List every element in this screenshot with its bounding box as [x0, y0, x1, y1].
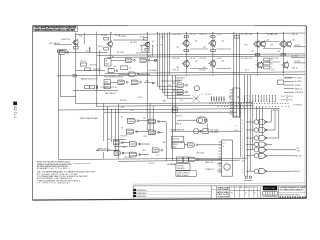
svg-text:R16: R16 — [241, 58, 244, 60]
svg-text:B+ 340V: B+ 340V — [295, 78, 303, 80]
svg-text:R10 2.2K: R10 2.2K — [173, 34, 181, 36]
svg-text:R21 10K: R21 10K — [245, 34, 253, 36]
svg-text:C4 .02: C4 .02 — [216, 34, 221, 36]
svg-text:R17: R17 — [114, 66, 117, 68]
svg-text:R10 2.2K: R10 2.2K — [199, 34, 207, 36]
svg-text:FUNCTION SELECTOR SW: FUNCTION SELECTOR SW — [104, 77, 123, 79]
svg-text:R25 10: R25 10 — [292, 34, 298, 36]
svg-text:C32: C32 — [168, 85, 171, 87]
svg-text:C47: C47 — [235, 130, 238, 132]
svg-text:R18: R18 — [176, 67, 179, 69]
svg-text:R11 470: R11 470 — [173, 58, 180, 60]
svg-text:R77: R77 — [235, 116, 238, 118]
svg-text:C24: C24 — [277, 51, 280, 53]
svg-text:C9 .1: C9 .1 — [271, 70, 275, 72]
svg-text:REVISED PER ECN: REVISED PER ECN — [137, 196, 147, 198]
svg-text:V6: V6 — [121, 128, 123, 130]
svg-text:R4 470K: R4 470K — [130, 42, 138, 44]
svg-text:Q3: Q3 — [195, 41, 197, 43]
svg-text:Q8: Q8 — [292, 40, 294, 42]
svg-text:C35: C35 — [121, 107, 124, 109]
svg-text:R51: R51 — [173, 83, 176, 85]
svg-text:R58 1K: R58 1K — [176, 124, 183, 126]
svg-text:R20: R20 — [245, 45, 248, 47]
svg-text:PREAMP: PREAMP — [176, 79, 184, 82]
svg-text:C10: C10 — [176, 47, 179, 49]
svg-text:T2 OUT: T2 OUT — [205, 94, 211, 96]
svg-text:PIN 5: PIN 5 — [289, 100, 293, 102]
svg-text:C7: C7 — [129, 67, 131, 69]
svg-text:OSC 455: OSC 455 — [172, 139, 179, 141]
svg-text:B+ 350: B+ 350 — [292, 56, 298, 58]
svg-text:OUT: OUT — [297, 151, 301, 153]
svg-text:R6: R6 — [112, 57, 114, 59]
svg-text:SC 5: SC 5 — [250, 187, 254, 189]
svg-text:V3A 12AX7: V3A 12AX7 — [176, 76, 185, 79]
svg-text:SCALE NONE: SCALE NONE — [217, 195, 230, 198]
svg-text:AF OUT: AF OUT — [295, 155, 302, 158]
svg-text:GND BUS: GND BUS — [295, 92, 304, 94]
svg-text:C30 20MF: C30 20MF — [149, 70, 157, 72]
svg-text:11: 11 — [245, 193, 247, 195]
svg-text:C2 100PF: C2 100PF — [118, 36, 127, 38]
svg-text:SCHEMATIC NO 771-53 REV C: SCHEMATIC NO 771-53 REV C — [37, 167, 71, 170]
svg-text:R82 220K: R82 220K — [197, 153, 205, 155]
svg-text:C31: C31 — [143, 118, 146, 120]
svg-text:REVISED PER ECN: REVISED PER ECN — [137, 190, 147, 192]
svg-text:TO SPKR A: TO SPKR A — [293, 103, 303, 106]
svg-text:TWO CHANNEL STEREO CHASSIS 7T1: TWO CHANNEL STEREO CHASSIS 7T10 — [279, 189, 303, 192]
svg-text:AC LINE IN: AC LINE IN — [50, 42, 60, 45]
svg-text:R64: R64 — [143, 150, 146, 152]
svg-text:C50: C50 — [242, 161, 245, 163]
svg-text:R21 10K: R21 10K — [271, 34, 279, 36]
svg-text:OUT A: OUT A — [294, 44, 300, 47]
svg-text:T2: T2 — [201, 94, 203, 96]
svg-text:Q6: Q6 — [222, 61, 224, 63]
svg-text:T3: T3 — [222, 143, 224, 145]
svg-text:OF SERVICE MANUAL: OF SERVICE MANUAL — [37, 181, 71, 184]
svg-text:SERIES 700 STEREO NO 7T10 AND: SERIES 700 STEREO NO 7T10 AND ALL LATER … — [34, 29, 75, 32]
svg-text:6BE6: 6BE6 — [172, 147, 176, 149]
svg-text:R1 47K: R1 47K — [101, 35, 108, 37]
svg-text:R11 470: R11 470 — [199, 58, 206, 60]
svg-text:500K AUD: 500K AUD — [177, 167, 186, 170]
svg-text:IF: IF — [222, 146, 223, 148]
svg-text:R55 330: R55 330 — [120, 100, 126, 102]
svg-text:TO V7: TO V7 — [281, 96, 286, 98]
svg-text:C41 250PF: C41 250PF — [210, 132, 219, 134]
svg-text:C3 .01: C3 .01 — [98, 46, 103, 48]
svg-text:→ INPUT A: → INPUT A — [60, 38, 71, 41]
svg-text:CK 2: CK 2 — [235, 187, 239, 189]
svg-text:BAL ADJ R40 5K POT: BAL ADJ R40 5K POT — [81, 77, 99, 80]
svg-text:R57: R57 — [131, 110, 134, 112]
svg-text:B+ 285V: B+ 285V — [295, 81, 303, 83]
svg-text:C38: C38 — [144, 136, 147, 138]
svg-text:SPKR B: SPKR B — [293, 171, 300, 173]
svg-text:L1: L1 — [177, 160, 179, 162]
svg-text:PIN 4: PIN 4 — [289, 96, 293, 98]
svg-text:R22 4.7K: R22 4.7K — [245, 58, 253, 60]
svg-text:771-53: 771-53 — [14, 106, 18, 118]
svg-text:R56: R56 — [163, 101, 166, 103]
svg-text:R26 10: R26 10 — [292, 68, 298, 70]
svg-text:C6 .02: C6 .02 — [136, 53, 141, 55]
svg-text:R12 1K: R12 1K — [199, 70, 206, 72]
svg-text:R15: R15 — [241, 34, 244, 36]
svg-text:6.3VAC: 6.3VAC — [295, 84, 302, 87]
svg-text:C20 40MF: C20 40MF — [284, 78, 292, 80]
svg-text:LINE VOLTAGE 117 VAC: LINE VOLTAGE 117 VAC — [80, 117, 99, 120]
svg-text:R66: R66 — [163, 142, 166, 144]
svg-text:Q2: Q2 — [152, 41, 154, 43]
svg-text:V9: V9 — [157, 155, 159, 157]
svg-text:R31 22K: R31 22K — [90, 64, 98, 66]
svg-text:Q4: Q4 — [222, 41, 224, 43]
svg-text:R2 1M: R2 1M — [86, 51, 92, 53]
svg-text:DWG 771-53 SH 1 OF 1 REV C: DWG 771-53 SH 1 OF 1 REV C — [279, 194, 301, 196]
svg-text:V5: V5 — [121, 117, 123, 119]
svg-text:REVISED PER ECN: REVISED PER ECN — [137, 193, 147, 195]
svg-text:R62: R62 — [108, 149, 111, 151]
svg-text:BASS TREBLE: BASS TREBLE — [177, 174, 189, 177]
svg-text:R32 10K: R32 10K — [94, 69, 102, 71]
svg-text:METTLER: METTLER — [264, 188, 275, 190]
svg-text:R12 1K: R12 1K — [173, 70, 180, 72]
svg-text:C23: C23 — [251, 51, 254, 53]
svg-text:C8 .05: C8 .05 — [267, 34, 272, 36]
svg-text:C33 .1: C33 .1 — [138, 97, 143, 99]
svg-text:C36 .02: C36 .02 — [176, 116, 182, 118]
svg-text:R61: R61 — [108, 139, 111, 141]
svg-text:R5 220K: R5 220K — [117, 52, 125, 54]
svg-text:SEE CHART 2: SEE CHART 2 — [105, 92, 116, 95]
svg-text:Q8: Q8 — [267, 40, 269, 42]
svg-text:V1: V1 — [105, 61, 107, 63]
svg-text:C45 .05: C45 .05 — [149, 163, 155, 165]
svg-text:PHONO INPUT B: PHONO INPUT B — [171, 129, 185, 131]
svg-text:R52: R52 — [173, 90, 176, 92]
svg-text:TUNER IN →: TUNER IN → — [205, 169, 216, 171]
svg-text:BIAS -45: BIAS -45 — [295, 87, 302, 90]
svg-text:C4 .02: C4 .02 — [190, 34, 195, 36]
svg-text:C11: C11 — [203, 47, 206, 49]
svg-text:C9 .1: C9 .1 — [245, 70, 249, 72]
svg-text:VOL R80: VOL R80 — [177, 165, 184, 167]
svg-text:DR 1: DR 1 — [230, 187, 234, 189]
svg-text:C14 .25: C14 .25 — [80, 61, 86, 63]
svg-text:TO V8: TO V8 — [281, 100, 286, 102]
svg-text:TAPE OUT →: TAPE OUT → — [205, 161, 216, 164]
svg-text:OUT B: OUT B — [294, 61, 300, 63]
svg-text:Q5: Q5 — [195, 61, 197, 63]
svg-text:R50: R50 — [146, 81, 149, 83]
svg-text:R63 47K: R63 47K — [121, 136, 128, 138]
svg-text:C39: C39 — [123, 147, 126, 149]
svg-text:V2B: V2B — [148, 56, 151, 58]
svg-text:R65 2.2K: R65 2.2K — [125, 157, 133, 159]
